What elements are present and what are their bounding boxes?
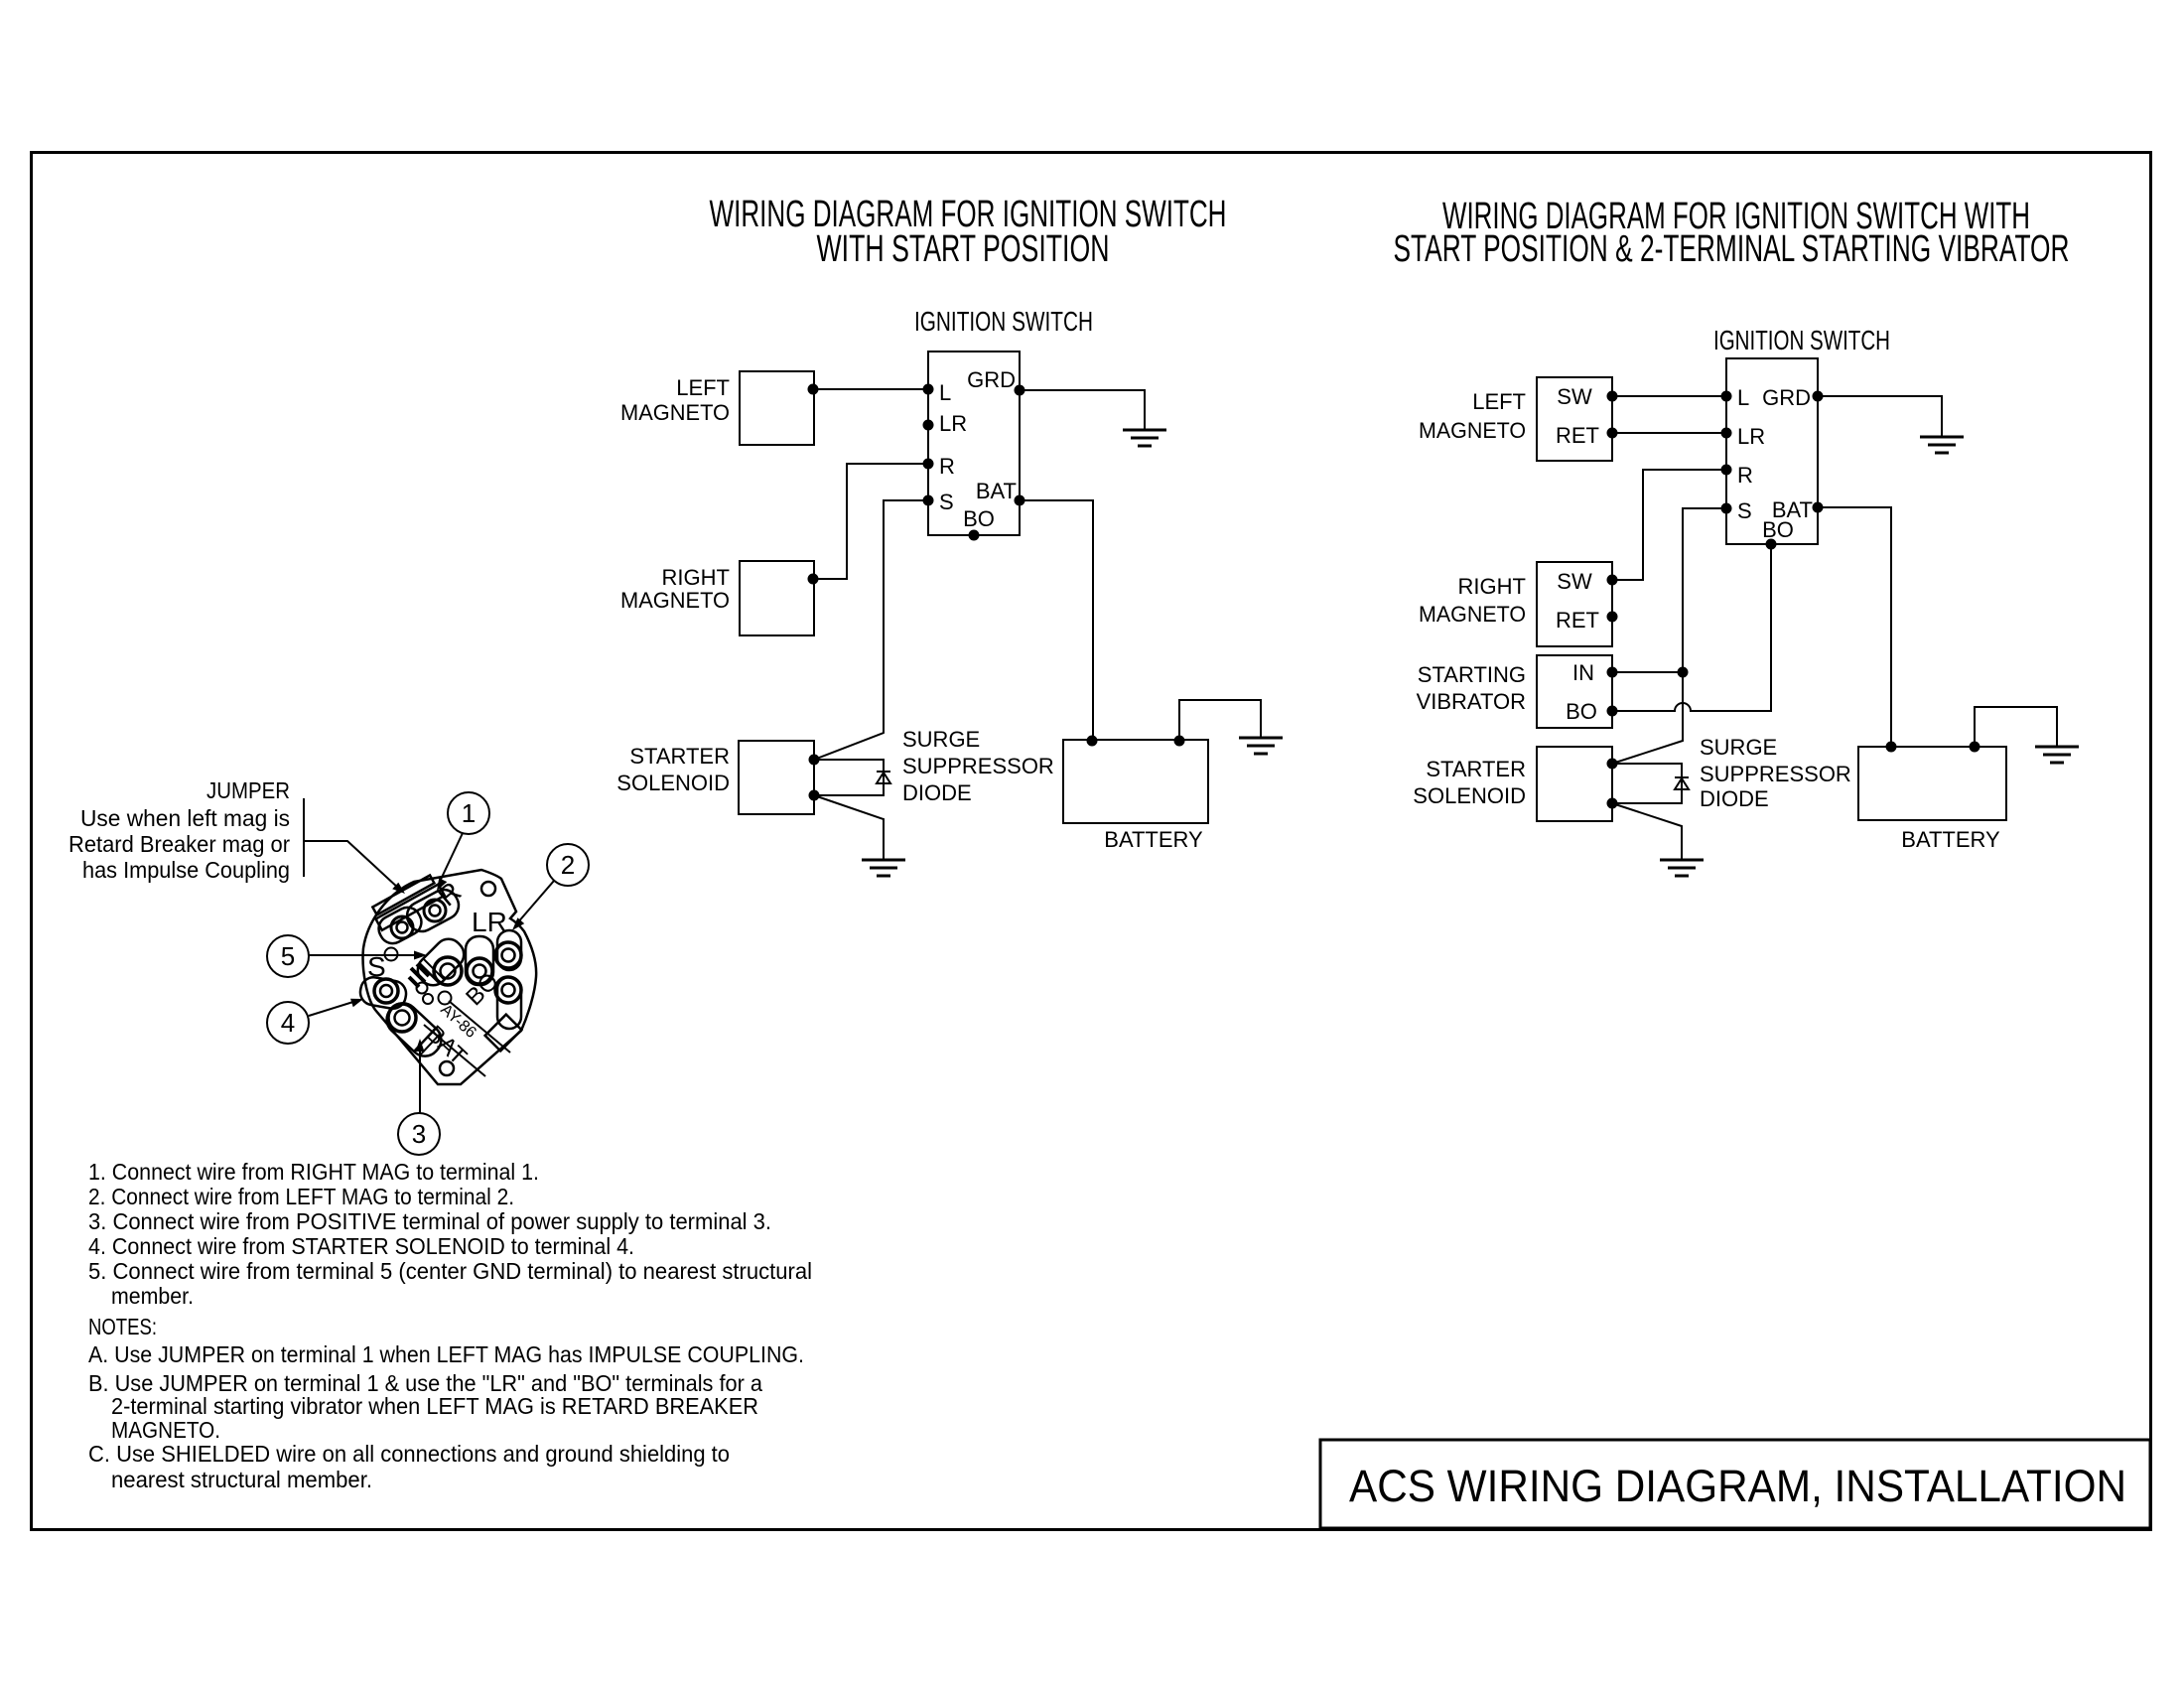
svg-text:L: L (1737, 385, 1749, 410)
svg-text:BATTERY: BATTERY (1104, 827, 1203, 852)
keyway channel lines (424, 1025, 485, 1076)
svg-text:R: R (1737, 463, 1753, 488)
svg-text:SURGE: SURGE (902, 727, 980, 752)
terminal LR (1721, 428, 1732, 439)
svg-text:STARTER: STARTER (629, 744, 730, 769)
svg-text:ACS WIRING DIAGRAM, INSTALLATI: ACS WIRING DIAGRAM, INSTALLATION (1349, 1461, 2126, 1511)
svg-text:RET: RET (1556, 423, 1599, 448)
vibrator IN terminal (1607, 667, 1618, 678)
right magneto RET terminal (1607, 612, 1618, 623)
terminal S (1721, 503, 1732, 514)
callout 4 (267, 1002, 309, 1044)
jumper leader line (304, 841, 399, 889)
svg-text:1. Connect wire from RIGHT MAG: 1. Connect wire from RIGHT MAG to termin… (88, 1159, 539, 1185)
svg-text:BO: BO (1762, 517, 1794, 542)
ignition switch box (1726, 358, 1818, 544)
wire battery to ground (1975, 707, 2057, 747)
left magneto box (740, 371, 814, 445)
svg-text:BAT: BAT (976, 479, 1017, 503)
right magneto SW terminal (1607, 575, 1618, 586)
svg-text:SW: SW (1557, 569, 1592, 594)
terminal R (923, 459, 934, 470)
battery negative terminal dot (1970, 742, 1980, 753)
starter solenoid box (1537, 747, 1612, 821)
jumper strap bars (370, 874, 445, 930)
right magneto box (740, 561, 814, 635)
svg-text:5: 5 (281, 941, 295, 971)
svg-text:SUPPRESSOR: SUPPRESSOR (902, 754, 1054, 778)
terminal BO (969, 530, 980, 541)
svg-text:IGNITION SWITCH: IGNITION SWITCH (914, 306, 1093, 337)
surge suppressor diode loop (1612, 764, 1682, 803)
terminal 2 (LR) lugs (466, 936, 493, 985)
svg-text:R: R (939, 454, 955, 479)
wire right magneto to R (808, 574, 819, 585)
terminal BAT (1015, 495, 1025, 506)
svg-text:STARTING: STARTING (1418, 662, 1526, 687)
svg-text:A. Use JUMPER on terminal 1 wh: A. Use JUMPER on terminal 1 when LEFT MA… (88, 1341, 804, 1367)
svg-text:SURGE: SURGE (1700, 735, 1777, 760)
callout 5 (267, 935, 309, 977)
junction dot (1678, 667, 1689, 678)
left magneto box (1537, 377, 1612, 461)
wire S to starter solenoid (814, 500, 928, 760)
svg-text:SOLENOID: SOLENOID (1413, 783, 1526, 808)
svg-text:Retard Breaker mag or: Retard Breaker mag or (68, 831, 290, 857)
title block (1320, 1440, 2150, 1528)
jumper end lug (374, 903, 426, 947)
svg-text:DIODE: DIODE (1700, 786, 1769, 811)
solenoid terminal dot top (809, 755, 820, 766)
wire left magneto to L (808, 384, 819, 395)
svg-text:STARTER: STARTER (1426, 757, 1526, 781)
svg-text:2-terminal starting vibrator w: 2-terminal starting vibrator when LEFT M… (111, 1393, 758, 1419)
svg-text:BO: BO (1566, 699, 1597, 724)
right magneto box (1537, 562, 1612, 646)
wire BAT to battery (1020, 500, 1093, 741)
ground symbol (battery) (1239, 738, 1283, 754)
svg-text:IGNITION SWITCH: IGNITION SWITCH (1713, 325, 1890, 355)
svg-text:nearest structural member.: nearest structural member. (111, 1467, 372, 1492)
terminal R (1721, 465, 1732, 476)
svg-text:member.: member. (111, 1283, 194, 1309)
battery box (1063, 740, 1208, 823)
svg-text:3. Connect wire from POSITIVE: 3. Connect wire from POSITIVE terminal o… (88, 1208, 771, 1234)
svg-text:4. Connect wire from STARTER S: 4. Connect wire from STARTER SOLENOID to… (88, 1233, 634, 1259)
svg-text:S: S (1737, 498, 1752, 523)
svg-text:C. Use SHIELDED wire on all co: C. Use SHIELDED wire on all connections … (88, 1441, 730, 1467)
wire solenoid to ground (1612, 803, 1682, 860)
terminal LR (923, 420, 934, 431)
terminal 5 (center GND) lug (412, 933, 470, 991)
svg-text:LEFT: LEFT (676, 375, 730, 400)
solenoid terminal dot top (1607, 759, 1618, 770)
wire vibrator BO to switch BO with hop (1612, 544, 1771, 711)
ground symbol (battery) (2035, 747, 2079, 763)
battery negative terminal dot (1174, 736, 1185, 747)
svg-text:BATTERY: BATTERY (1901, 827, 2000, 852)
svg-text:2. Connect wire from LEFT MAG: 2. Connect wire from LEFT MAG to termina… (88, 1184, 514, 1209)
svg-text:1: 1 (462, 798, 476, 828)
terminal GRD (1813, 391, 1824, 402)
svg-text:BO: BO (963, 506, 995, 531)
ground symbol (solenoid) (862, 860, 905, 876)
svg-text:5. Connect wire from terminal: 5. Connect wire from terminal 5 (center … (88, 1258, 812, 1284)
svg-text:SUPPRESSOR: SUPPRESSOR (1700, 762, 1851, 786)
surge suppressor diode loop (814, 760, 884, 795)
wire GRD to ground (1818, 396, 1942, 437)
wire S to starter solenoid (1612, 508, 1726, 764)
ground symbol (ignition switch GRD) (1920, 437, 1964, 453)
wire right magneto SW to R (1612, 470, 1726, 580)
left magneto RET terminal (1607, 428, 1618, 439)
terminal 3 (BAT) lug (380, 997, 447, 1062)
wire SW to L (1612, 395, 1726, 397)
svg-text:RIGHT: RIGHT (1458, 574, 1526, 599)
terminal BAT (1813, 502, 1824, 513)
ground symbol (solenoid) (1660, 860, 1704, 876)
svg-text:IN: IN (1572, 660, 1594, 685)
battery positive terminal dot (1886, 742, 1897, 753)
svg-text:LR: LR (472, 907, 507, 937)
callout 1 (448, 792, 489, 834)
svg-text:GRD: GRD (1762, 385, 1811, 410)
callout 2 (547, 844, 589, 886)
svg-text:MAGNETO.: MAGNETO. (111, 1417, 220, 1443)
jumper note bracket (303, 798, 305, 877)
svg-text:2: 2 (561, 850, 575, 880)
svg-text:GRD: GRD (967, 367, 1016, 392)
mounting hole top right (481, 882, 495, 896)
wire IN to S-net junction (1612, 671, 1683, 673)
terminal L (923, 384, 934, 395)
svg-text:4: 4 (281, 1008, 295, 1038)
svg-text:SOLENOID: SOLENOID (616, 771, 730, 795)
svg-text:WITH START POSITION: WITH START POSITION (817, 228, 1110, 270)
svg-text:VIBRATOR: VIBRATOR (1417, 689, 1526, 714)
svg-text:3: 3 (412, 1119, 426, 1149)
solenoid terminal dot bottom (809, 790, 820, 801)
wire solenoid to ground (814, 795, 884, 860)
svg-text:L: L (939, 380, 951, 405)
battery box (1858, 747, 2006, 820)
starter solenoid box (739, 741, 814, 814)
wire BAT to battery (1818, 507, 1891, 747)
wire RET to LR (1612, 432, 1726, 434)
callout 3 (398, 1113, 440, 1155)
mounting hole bottom (440, 1061, 454, 1075)
svg-text:START POSITION & 2-TERMINAL ST: START POSITION & 2-TERMINAL STARTING VIB… (1394, 228, 2070, 270)
terminal 4 (S) lug (358, 975, 408, 1011)
page border frame (32, 153, 2151, 1530)
terminal S (923, 495, 934, 506)
svg-text:RIGHT: RIGHT (662, 565, 730, 590)
terminal BO (1766, 539, 1777, 550)
wire GRD to ground (1020, 390, 1145, 430)
center small parts (385, 948, 398, 961)
svg-text:NOTES:: NOTES: (88, 1314, 157, 1339)
connector body outline (363, 870, 537, 1084)
svg-text:DIODE: DIODE (902, 780, 972, 805)
svg-text:LR: LR (1737, 424, 1765, 449)
svg-text:S: S (939, 490, 954, 514)
svg-text:LR: LR (939, 411, 967, 436)
terminal GRD (1015, 385, 1025, 396)
svg-text:JUMPER: JUMPER (206, 777, 290, 803)
starting vibrator box (1537, 655, 1612, 728)
svg-text:MAGNETO: MAGNETO (620, 588, 730, 613)
svg-text:Use when left mag is: Use when left mag is (80, 805, 290, 831)
terminal L (1721, 391, 1732, 402)
solenoid terminal dot bottom (1607, 798, 1618, 809)
ignition switch box (928, 352, 1020, 535)
svg-text:SW: SW (1557, 384, 1592, 409)
left magneto SW terminal (1607, 391, 1618, 402)
svg-text:MAGNETO: MAGNETO (620, 400, 730, 425)
svg-text:RET: RET (1556, 608, 1599, 633)
terminal 1 (R) lug (402, 885, 464, 936)
svg-text:has Impulse Coupling: has Impulse Coupling (82, 857, 290, 883)
vibrator BO terminal (1607, 706, 1618, 717)
ground symbol (ignition switch GRD) (1123, 430, 1166, 446)
battery positive terminal dot (1087, 736, 1098, 747)
svg-text:LEFT: LEFT (1472, 389, 1526, 414)
diode symbol (1675, 777, 1689, 789)
wire battery to ground (1179, 700, 1261, 741)
terminal BO lug (497, 977, 521, 1029)
svg-text:MAGNETO: MAGNETO (1419, 602, 1526, 627)
svg-text:MAGNETO: MAGNETO (1419, 418, 1526, 443)
diode symbol (877, 772, 890, 783)
